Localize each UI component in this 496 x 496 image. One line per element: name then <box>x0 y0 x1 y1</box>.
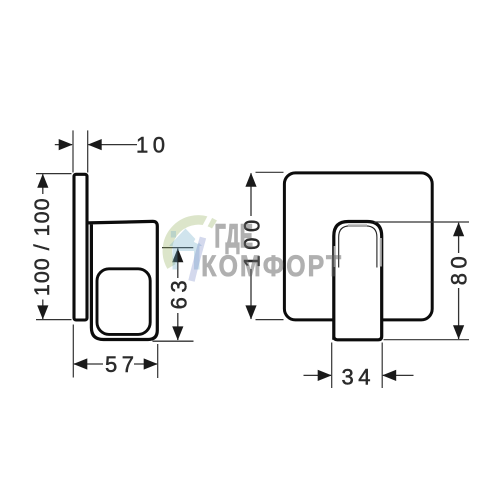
handle body side profile <box>89 221 158 339</box>
dimension 57: left arrowhead <box>73 358 87 369</box>
svg-text:80: 80 <box>447 252 472 285</box>
dimension 100/100: bottom arrowhead <box>37 305 48 319</box>
svg-text:34: 34 <box>342 364 375 389</box>
dimension 34: extension line right <box>381 343 383 389</box>
dimension 100 (front): upper stem <box>250 173 252 216</box>
escutcheon plate front face <box>284 173 432 320</box>
handle grip face inset (side view) <box>97 269 150 335</box>
dimension 80: upper stem <box>458 223 460 253</box>
dimension 80: lower stem <box>458 288 460 339</box>
dimension 10: extension line right <box>87 130 89 172</box>
dimension 63: top arrowhead <box>172 248 183 262</box>
dimension 34: left tail <box>304 374 332 376</box>
dimension 34: left arrowhead <box>318 370 332 381</box>
svg-text:КОМФОРТ: КОМФОРТ <box>201 249 343 283</box>
dimension 34: right tail <box>383 374 414 376</box>
svg-text:57: 57 <box>105 352 138 377</box>
dimension 10: left tail <box>55 144 72 146</box>
svg-text:100 / 100: 100 / 100 <box>30 197 54 296</box>
dimension 80: extension line bottom <box>384 339 470 341</box>
dimension 57: left segment <box>74 363 103 365</box>
dimension 34: right arrowhead <box>382 370 396 381</box>
watermark logo house chimney <box>171 231 176 238</box>
dimension 100/100: upper stem <box>42 174 44 194</box>
dimension 63: extension line top <box>162 247 193 249</box>
dimension 100/100: extension line bottom <box>36 319 72 321</box>
dimension 10: left arrowhead <box>59 139 73 150</box>
dimension 100/100: extension line top <box>36 173 72 175</box>
svg-text:63: 63 <box>166 276 191 309</box>
dimension 57: extension line left <box>72 325 74 378</box>
dimension 63: lower stem <box>177 313 179 340</box>
dimension 10: right tail <box>88 144 137 146</box>
escutcheon plate side profile <box>74 174 87 320</box>
dimension 100 (front): extension line top <box>256 171 284 173</box>
dimension 34: extension line left <box>331 343 333 389</box>
dimension 57: extension line right <box>157 344 159 378</box>
handle front inner contour <box>339 226 377 268</box>
dimension 100 (front): extension line bottom <box>256 319 284 321</box>
dimension 57: right arrowhead <box>144 358 158 369</box>
watermark logo green swoosh <box>167 220 214 267</box>
dimension 100/100: top arrowhead <box>37 174 48 188</box>
dimension 80: top arrowhead <box>453 222 464 236</box>
watermark logo ribbon <box>192 238 204 282</box>
watermark logo house roof <box>169 229 202 247</box>
dimension 63: upper stem <box>177 248 179 278</box>
handle chrome highlight top <box>348 224 367 227</box>
dimension 10: extension line left <box>72 130 74 172</box>
watermark logo white cut <box>196 211 213 243</box>
dimension 10: right arrowhead <box>88 139 102 150</box>
svg-text:10: 10 <box>136 133 169 158</box>
watermark logo house walls <box>173 246 200 270</box>
handle chrome highlight right <box>380 238 382 267</box>
dimension 63: bottom arrowhead <box>172 326 183 340</box>
handle front outline <box>334 222 382 340</box>
dimension 63: extension line bottom <box>153 340 194 342</box>
dimension 100 (front): bottom arrowhead <box>245 305 256 319</box>
handle chrome highlight left <box>334 246 336 267</box>
dimension 80: bottom arrowhead <box>453 325 464 339</box>
dimension 100 (front): top arrowhead <box>245 173 256 187</box>
dimension 80: extension line top <box>374 221 469 223</box>
dimension 100 (front): lower stem <box>250 269 252 319</box>
dimension 100/100: lower stem <box>42 300 44 320</box>
dimension 57: right segment <box>134 363 157 365</box>
